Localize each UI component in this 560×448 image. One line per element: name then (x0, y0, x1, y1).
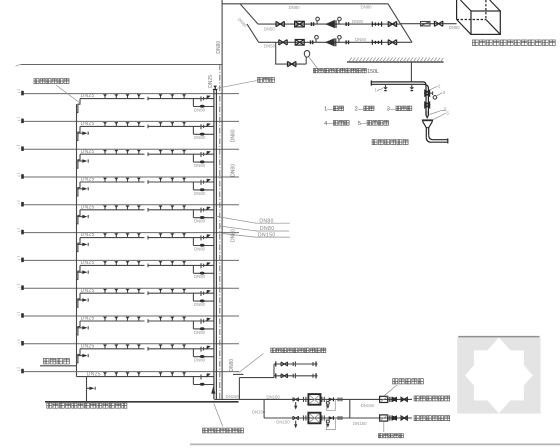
svg-text:DN80: DN80 (229, 359, 235, 372)
drain spool lower (274, 373, 318, 378)
floor 4 branch (17, 285, 239, 308)
drain funnel (422, 120, 433, 127)
svg-text:3—: 3— (387, 107, 396, 113)
drain arrow floor 10 (77, 131, 89, 135)
floor 7 branch (17, 201, 239, 224)
leader label DN150 (222, 232, 290, 238)
lower branch flex joint 2 (345, 40, 349, 44)
drain arrow floor 3 (77, 326, 89, 330)
pump upper (325, 20, 336, 28)
backflow preventer upper (380, 396, 397, 402)
watermark logo square (457, 337, 540, 414)
elbow to drop pipe (423, 82, 428, 88)
floor 8 branch (17, 173, 239, 196)
second valve on drop (425, 102, 430, 108)
fire pump lower (308, 413, 320, 424)
svg-text:1—: 1— (324, 107, 333, 113)
lower branch gauge 2 (338, 35, 342, 42)
svg-text:DN150: DN150 (266, 395, 280, 400)
label system drain suitable location (233, 348, 326, 374)
drain arrow floor 4 (77, 298, 89, 302)
air release valve on riser top (213, 86, 218, 90)
ground slab thick line (45, 401, 239, 403)
floor 11 branch (17, 90, 239, 113)
svg-text:DN80: DN80 (361, 4, 373, 9)
legend row 1 item 2 (355, 106, 374, 113)
basement branch (floor 1) (17, 368, 239, 402)
label connect from outdoors (40, 358, 77, 365)
upper branch gauge (316, 17, 320, 24)
pump lower gauge loop (326, 418, 335, 430)
tee drop to lower run (263, 399, 265, 418)
nozzle tip (426, 111, 428, 118)
svg-text:DN80: DN80 (237, 17, 248, 29)
hanger rod (410, 62, 412, 82)
floor 6 branch (17, 229, 239, 252)
floor 9 branch (17, 146, 239, 169)
existing riser dash-dot line (219, 64, 221, 399)
svg-text:DN25: DN25 (208, 75, 214, 88)
leader 5 (433, 110, 449, 119)
upper branch check valve (372, 22, 381, 27)
svg-text:DN80: DN80 (231, 229, 237, 242)
bottom main pipe lower run (264, 417, 412, 419)
legend row 2 item 4 (324, 121, 349, 128)
pipe to roof tank (401, 23, 457, 25)
leader label DN80 lower (220, 226, 289, 232)
pump unit upper: inlet valve (293, 398, 299, 402)
drain arrow floor 2 (77, 354, 89, 358)
upper branch flex joint 2 (345, 22, 349, 26)
svg-text:5: 5 (447, 110, 450, 115)
label pollution isolation valve upper (384, 379, 423, 396)
bypass gate valve (288, 61, 296, 66)
pump unit upper: inlet drain arrow (294, 402, 297, 410)
lower branch gate valve 2 (388, 40, 396, 45)
pump unit upper: check valve (329, 398, 334, 402)
pump unit upper: outlet joints (322, 397, 324, 402)
fire pump upper (308, 394, 320, 405)
gauge on drop pipe (433, 96, 437, 100)
label wet alarm valve set (203, 404, 244, 433)
svg-text:DN80: DN80 (289, 5, 301, 10)
svg-text:DN80: DN80 (231, 129, 237, 142)
pump branch upper pipe (258, 23, 400, 25)
drain arrow floor 9 (77, 159, 89, 163)
drain arrow floor 7 (77, 215, 89, 219)
test valve with handle (425, 90, 433, 96)
svg-text:DN80: DN80 (352, 19, 364, 24)
pump unit lower: flex joints (304, 415, 306, 420)
gate valve to tank (434, 21, 442, 26)
pump unit lower: outlet joints (322, 415, 324, 420)
label roof tank (472, 40, 555, 46)
label air valve (218, 77, 275, 88)
right merge diagonal (388, 4, 412, 43)
svg-text:DN150: DN150 (361, 403, 375, 408)
lower branch butterfly valve (295, 40, 304, 46)
svg-text:DN150: DN150 (276, 419, 290, 424)
label connect existing municipal main (414, 396, 450, 401)
svg-text:DN150: DN150 (353, 421, 367, 426)
svg-text:DN50: DN50 (264, 27, 276, 32)
roof water tank 3d box (457, 0, 501, 34)
drop pipe vertical (426, 86, 428, 116)
pendent sprinkler 1 (375, 84, 388, 92)
legend row 1 item 1 (324, 106, 343, 113)
check valve to tank (421, 22, 431, 26)
supply riser line (221, 0, 223, 399)
pressure tank bypass pipe (276, 42, 307, 64)
flow arrow at riser bottom (211, 386, 215, 393)
leader 3 (436, 90, 446, 96)
drain arrow floor 6 (77, 243, 89, 247)
drain spool upper (274, 361, 318, 366)
legend row 1 item 3 (387, 106, 412, 113)
upper branch flex joint (311, 22, 315, 26)
floor 10 branch (17, 118, 239, 141)
left drop diagonal 1 (240, 4, 258, 24)
main sprinkler riser pair DN80 (213, 90, 215, 400)
svg-text:1: 1 (375, 88, 378, 93)
lower branch gauge (315, 35, 319, 42)
hatched ceiling line (347, 57, 444, 62)
pendent sprinkler 2 (410, 84, 415, 90)
svg-text:DN25: DN25 (87, 371, 101, 377)
detail title end drain device (372, 140, 408, 145)
pump branch lower pipe (259, 41, 412, 43)
lower branch check valve (372, 40, 381, 45)
svg-text:DN50: DN50 (355, 37, 367, 42)
svg-text:4—: 4— (324, 121, 333, 127)
drain arrow floor 5 (77, 270, 89, 274)
svg-text:DN80: DN80 (231, 164, 237, 177)
bottom main pipe upper run (215, 398, 413, 400)
label connect new municipal main (414, 416, 450, 421)
svg-text:2—: 2— (355, 107, 364, 113)
upper branch gate valve (276, 21, 284, 26)
label system drain to basement (47, 403, 127, 408)
pump lower (325, 38, 336, 46)
top suction header pipe (222, 3, 388, 5)
floor 2 branch (17, 340, 239, 363)
pump unit upper: outlet valve (338, 398, 342, 402)
pressure tank symbol (304, 50, 309, 64)
label end-drain device top-left (34, 79, 80, 103)
label pollution isolation valve lower (378, 421, 403, 437)
pump unit upper: flex joints (304, 397, 306, 402)
drain arrow floor 8 (77, 187, 89, 191)
upper branch butterfly valve (295, 21, 305, 27)
drain elbow (426, 135, 448, 143)
pump unit lower: outlet valve (338, 416, 342, 420)
svg-text:DN150: DN150 (252, 409, 266, 414)
lower branch gate valve (279, 40, 287, 45)
svg-text:2: 2 (438, 84, 441, 89)
gate valve lower right (401, 416, 407, 420)
svg-text:DN50: DN50 (449, 25, 461, 30)
upper branch gate valve 2 (388, 21, 396, 26)
svg-text:DN150: DN150 (226, 394, 240, 399)
cross connector (349, 399, 351, 418)
leader label DN80 upper (216, 216, 289, 224)
svg-text:DN80: DN80 (216, 41, 222, 54)
backflow preventer lower (380, 415, 397, 421)
legend row 2 item 5 (358, 121, 389, 128)
pump unit lower: check valve (329, 416, 334, 420)
pump upper gauge loop (326, 399, 335, 410)
test pipe horizontal (371, 80, 423, 85)
leader 2 (430, 84, 441, 90)
svg-text:3: 3 (443, 90, 446, 95)
upper branch gauge 2 (338, 17, 342, 24)
pump unit lower: inlet valve (293, 416, 299, 420)
drain riser pipe (76, 104, 78, 377)
floor 5 branch (17, 257, 239, 280)
leader 4 (430, 106, 447, 115)
svg-text:DN50: DN50 (264, 44, 276, 49)
drain test spool riser (239, 364, 274, 399)
roof slab line (16, 64, 222, 66)
label pressure tank volume (309, 58, 379, 75)
gate valve upper right (401, 397, 407, 401)
left drop diagonal 2 (247, 24, 259, 42)
pump unit lower: inlet drain arrow (294, 421, 297, 429)
svg-text:5—: 5— (358, 121, 367, 127)
lower branch flex joint (310, 40, 314, 44)
bottom page edge line (190, 443, 560, 445)
funnel drop pipe (426, 128, 428, 138)
floor 3 branch (17, 312, 239, 335)
svg-text:150L: 150L (367, 69, 379, 75)
